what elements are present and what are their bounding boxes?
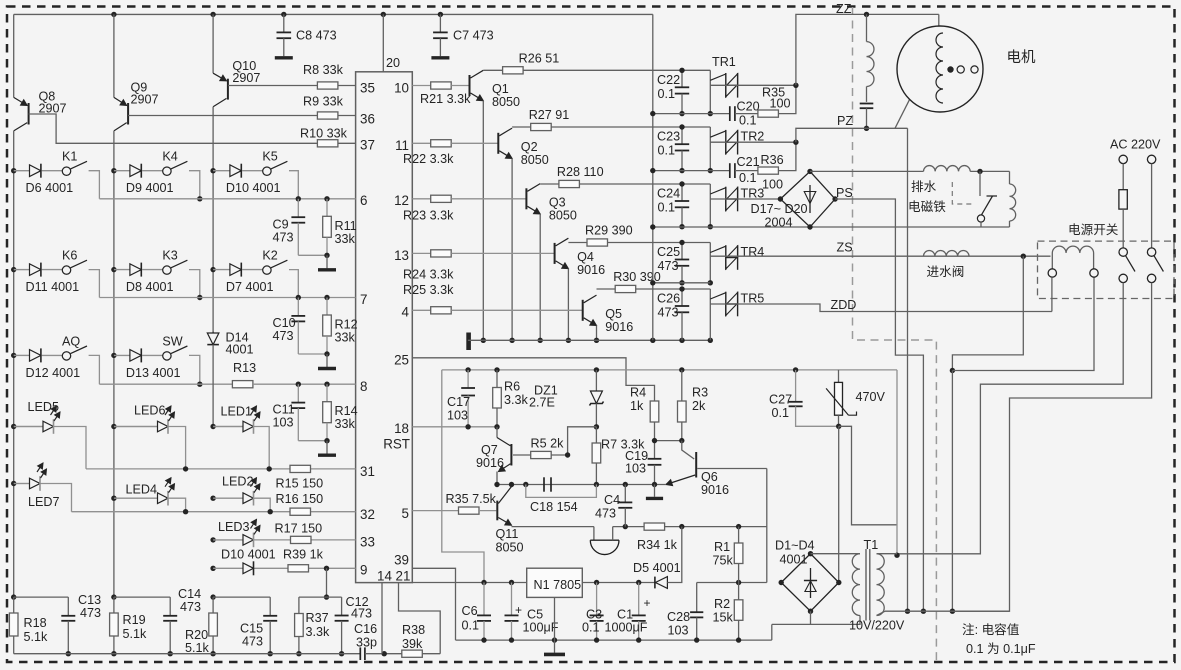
junction top bus / Q10 rail bbox=[210, 12, 215, 17]
wire solenoid bottom bbox=[1009, 221, 1011, 227]
svg-text:32: 32 bbox=[360, 507, 375, 522]
svg-text:0.1: 0.1 bbox=[582, 621, 600, 635]
resistor R10 bbox=[317, 140, 338, 147]
svg-text:473: 473 bbox=[658, 259, 679, 273]
svg-text:2907: 2907 bbox=[232, 71, 260, 85]
resistor R21 bbox=[431, 82, 452, 89]
svg-text:R18: R18 bbox=[24, 616, 47, 630]
wire TR1 midline bbox=[710, 84, 796, 86]
wire unreg to R1/R2 bbox=[697, 582, 767, 584]
resistor R35b bbox=[459, 507, 480, 514]
svg-text:0.1: 0.1 bbox=[772, 406, 790, 420]
wire pin line R25 bbox=[412, 309, 430, 311]
resistor R19 bbox=[113, 597, 115, 613]
LED2 bbox=[213, 497, 243, 499]
diode D14 4001 bbox=[212, 331, 214, 333]
wire C9/R11 junction bbox=[298, 254, 327, 256]
pressure switch contact bbox=[979, 171, 981, 196]
wire ZS return bbox=[952, 256, 1023, 370]
resistor R30 bbox=[615, 285, 636, 292]
LED5 bbox=[14, 426, 43, 428]
junction R4 bottom bbox=[652, 438, 657, 443]
capacitor C4 bbox=[624, 485, 626, 503]
resistor R3 bbox=[681, 370, 683, 401]
resistor R29 bbox=[587, 239, 608, 246]
wire TR3 MT1 / solenoid return bbox=[653, 226, 1010, 228]
wire D6 cathode to switch K1 bbox=[42, 170, 63, 172]
AC terminal L bbox=[1119, 155, 1127, 163]
svg-text:C16: C16 bbox=[354, 622, 377, 636]
wire R22 to Q2 base bbox=[451, 142, 498, 144]
svg-text:LED5: LED5 bbox=[28, 400, 60, 414]
svg-text:R19: R19 bbox=[123, 613, 146, 627]
wire TR3 gate lead bbox=[710, 188, 726, 194]
junction bus/railA bbox=[650, 338, 655, 343]
power switch dashed box bbox=[1038, 241, 1175, 298]
junction rail/D12 bbox=[11, 353, 16, 358]
wire solenoid to corner bbox=[970, 170, 1009, 172]
junction top bus / C8 bbox=[281, 12, 286, 17]
wire Q5 emitter column bbox=[596, 326, 598, 341]
svg-text:C5: C5 bbox=[527, 608, 543, 622]
junction gnd/R2 bbox=[736, 637, 741, 642]
switch pole 1 bottom contact bbox=[1119, 274, 1127, 282]
wire fuse to switch bbox=[1122, 209, 1124, 248]
wire D10 cathode to switch K5 bbox=[242, 170, 263, 172]
svg-text:AQ: AQ bbox=[62, 334, 80, 348]
wire rail column 1 lower bbox=[13, 131, 15, 597]
svg-text:8050: 8050 bbox=[496, 541, 524, 555]
wire R34 to D5/R1 node bbox=[665, 526, 767, 528]
wire pin 9 net bbox=[255, 567, 356, 569]
svg-text:R11: R11 bbox=[335, 219, 357, 233]
wire K1 output step bbox=[89, 171, 100, 199]
capacitor C18 (series) bbox=[543, 477, 545, 491]
transistor Q4 9016 bbox=[554, 243, 556, 264]
capacitor C26 bbox=[681, 289, 683, 306]
capacitor C24 bbox=[681, 184, 683, 201]
wire R36 to TR2 MT2 node bbox=[778, 142, 796, 170]
junction step K4 bbox=[197, 196, 202, 201]
svg-text:C26: C26 bbox=[657, 292, 680, 306]
svg-text:0.1: 0.1 bbox=[658, 87, 676, 101]
capacitor C5 100uF bbox=[511, 583, 513, 616]
svg-text:103: 103 bbox=[447, 409, 468, 423]
resistor R5 bbox=[531, 451, 552, 458]
capacitor C9 bbox=[297, 199, 299, 217]
svg-text:R10 33k: R10 33k bbox=[300, 127, 348, 141]
svg-text:R2: R2 bbox=[714, 597, 730, 611]
wire TR4 gate lead bbox=[710, 246, 726, 252]
transistor Q7 9016 bbox=[496, 427, 498, 438]
wire Q2 emitter column bbox=[511, 159, 513, 341]
capacitor C16 (series) bbox=[359, 647, 361, 660]
svg-text:电磁铁: 电磁铁 bbox=[908, 200, 946, 214]
junction pin6/C9 bbox=[296, 196, 301, 201]
capacitor C13 bbox=[67, 597, 69, 616]
svg-text:D10 4001: D10 4001 bbox=[226, 181, 281, 195]
svg-text:39: 39 bbox=[394, 553, 409, 568]
wire motor stator top bbox=[938, 14, 940, 26]
triac TR5 bbox=[725, 292, 727, 317]
capacitor C1 1000uF bbox=[638, 583, 640, 616]
junction top bus / Q9 rail bbox=[111, 12, 116, 17]
junction TR4 gate drop bottom bbox=[708, 280, 713, 285]
switch K3 bbox=[163, 266, 171, 274]
svg-text:0.1: 0.1 bbox=[739, 114, 757, 128]
wire R21 to Q1 base bbox=[451, 85, 469, 87]
svg-text:C10: C10 bbox=[273, 316, 296, 330]
wire AC common rail bbox=[652, 14, 654, 340]
junction C22 bottom bbox=[679, 111, 684, 116]
motor terminal 1 bbox=[957, 66, 964, 73]
junction bus/TR5 bbox=[708, 338, 713, 343]
junction gnd/7805 tab bbox=[552, 637, 557, 642]
capacitor C7 bbox=[439, 14, 441, 32]
svg-text:C28: C28 bbox=[667, 610, 690, 624]
wire LED5 step bbox=[55, 427, 87, 469]
transistor Q11 8050 bbox=[496, 501, 498, 521]
svg-text:15k: 15k bbox=[713, 611, 734, 625]
wire pin 6 net bbox=[99, 198, 355, 200]
wire pin 18 RST net bbox=[412, 426, 497, 428]
wire ZZ net bbox=[796, 14, 939, 85]
board partition dashed line bbox=[853, 7, 937, 661]
junction emitter bus Q3 bbox=[538, 338, 543, 343]
diode D12 4001 bbox=[14, 354, 30, 356]
svg-text:+: + bbox=[644, 596, 651, 610]
wire R20/C15 top link bbox=[213, 596, 270, 598]
wire pin 21 jog bbox=[399, 583, 441, 654]
svg-text:4001: 4001 bbox=[226, 343, 254, 357]
wire K6 output step bbox=[89, 270, 100, 298]
switch pole 2 top contact bbox=[1147, 248, 1155, 256]
svg-text:AC 220V: AC 220V bbox=[1110, 138, 1161, 152]
resistor R11 bbox=[326, 199, 328, 217]
LED6 bbox=[114, 426, 158, 428]
svg-text:35: 35 bbox=[360, 81, 375, 96]
wire Q2 collector net bbox=[551, 126, 710, 128]
svg-text:C1: C1 bbox=[617, 608, 633, 622]
wire Q9 base to R9 bbox=[128, 115, 317, 117]
svg-text:100μF: 100μF bbox=[523, 621, 559, 635]
zener DZ1 2.7E bbox=[595, 370, 597, 391]
junction bridge2 top bbox=[808, 551, 813, 556]
svg-text:C7 473: C7 473 bbox=[453, 29, 494, 43]
svg-text:R15 150: R15 150 bbox=[276, 477, 324, 491]
resistor R8 bbox=[317, 82, 338, 89]
wire bus C16 to pin14 bbox=[365, 653, 402, 655]
svg-text:C13: C13 bbox=[78, 593, 101, 607]
svg-text:K4: K4 bbox=[162, 150, 177, 164]
diode D6 4001 bbox=[14, 170, 30, 172]
resistor R2 bbox=[738, 583, 740, 600]
motor main winding bbox=[866, 14, 868, 41]
svg-text:C20: C20 bbox=[737, 100, 760, 114]
junction bridge2 bottom bbox=[808, 609, 813, 614]
svg-text:K5: K5 bbox=[262, 150, 277, 164]
wire TR3 midline bbox=[710, 198, 780, 200]
wire PZ net bbox=[796, 128, 908, 142]
capacitor C14 bbox=[169, 597, 171, 616]
junction ZS return bbox=[1021, 254, 1026, 259]
resistor R6 bbox=[496, 370, 498, 388]
wire emitter common bus bbox=[468, 339, 710, 341]
wire TR5 gate lead bbox=[710, 293, 726, 299]
wire R25 to Q5 base bbox=[451, 309, 583, 311]
junction pin31 LED6 bbox=[183, 466, 188, 471]
coil inlet valve bbox=[924, 251, 970, 257]
resistor R34 bbox=[644, 523, 665, 530]
junction top bus / pin20 bbox=[381, 12, 386, 17]
resistor R13 bbox=[232, 381, 253, 388]
svg-text:Q11: Q11 bbox=[496, 527, 519, 541]
junction emitter bus Q1 bbox=[481, 338, 486, 343]
wire D13 cathode to switch SW bbox=[142, 354, 163, 356]
svg-text:电机: 电机 bbox=[1007, 49, 1036, 66]
svg-text:R8 33k: R8 33k bbox=[303, 63, 344, 77]
wire +V top bus bbox=[14, 13, 653, 15]
junction pin32 LED2 bbox=[268, 509, 273, 514]
junction gnd/C1 bbox=[636, 637, 641, 642]
svg-text:R3: R3 bbox=[692, 386, 708, 400]
svg-text:D6 4001: D6 4001 bbox=[26, 181, 74, 195]
svg-text:LED3: LED3 bbox=[218, 520, 250, 534]
diode D5 4001 bbox=[655, 577, 667, 589]
junction TR1 MT2/ZZ bbox=[793, 83, 798, 88]
diode D9 4001 bbox=[114, 170, 130, 172]
varistor RV 470V bbox=[838, 370, 840, 383]
svg-text:C3: C3 bbox=[586, 608, 602, 622]
junction joint/T1 bottom bbox=[950, 609, 955, 614]
svg-text:Q4: Q4 bbox=[577, 250, 594, 264]
junction bias/C18 bbox=[523, 482, 528, 487]
wire PZ return to T1 bbox=[907, 128, 909, 611]
junction bridge left bbox=[778, 196, 783, 201]
svg-text:PS: PS bbox=[836, 186, 853, 200]
wire bias common line bbox=[497, 484, 666, 486]
junction rail/D11 bbox=[11, 267, 16, 272]
svg-text:103: 103 bbox=[625, 462, 646, 476]
svg-text:8: 8 bbox=[360, 379, 367, 394]
wire D9 cathode to switch K4 bbox=[142, 170, 163, 172]
svg-text:C15: C15 bbox=[240, 622, 263, 636]
resistor R26 bbox=[503, 67, 523, 74]
svg-text:LED2: LED2 bbox=[222, 475, 254, 489]
svg-text:C24: C24 bbox=[657, 187, 680, 201]
LED7 bbox=[14, 483, 30, 485]
svg-text:0.1: 0.1 bbox=[658, 144, 676, 158]
svg-text:R9 33k: R9 33k bbox=[303, 95, 344, 109]
junction bias/R7 bbox=[594, 482, 599, 487]
svg-text:13: 13 bbox=[394, 248, 409, 263]
svg-text:R4: R4 bbox=[630, 386, 646, 400]
wire Q10 base to R8 bbox=[228, 85, 318, 87]
capacitor C22 bbox=[681, 70, 683, 87]
svg-text:C9: C9 bbox=[273, 217, 289, 231]
transistor Q5 9016 bbox=[582, 300, 584, 321]
wire pin line R23 bbox=[412, 198, 430, 200]
junction bias/Q11c bbox=[509, 482, 514, 487]
wire 7805 tab bbox=[554, 597, 556, 640]
svg-text:R29 390: R29 390 bbox=[585, 224, 633, 238]
svg-text:R37: R37 bbox=[306, 611, 329, 625]
wire T1 bottom line bbox=[885, 610, 1010, 612]
resistor R4 bbox=[650, 401, 659, 422]
wire pin 25 feed bbox=[412, 358, 654, 401]
svg-text:D8 4001: D8 4001 bbox=[126, 280, 174, 294]
svg-text:100: 100 bbox=[770, 97, 791, 111]
switch AQ bbox=[62, 352, 70, 360]
wire Q5 collector bbox=[597, 288, 616, 290]
junction gnd/C6 bbox=[481, 637, 486, 642]
junction varistor/C27 bbox=[836, 424, 841, 429]
svg-text:C8 473: C8 473 bbox=[296, 29, 337, 43]
junction bus/R37 bbox=[296, 651, 301, 656]
svg-text:R17 150: R17 150 bbox=[275, 522, 323, 536]
wire rail column 3 lower bbox=[212, 107, 214, 332]
wire Q1 collector net bbox=[523, 69, 710, 71]
svg-text:C4: C4 bbox=[604, 493, 620, 507]
svg-text:C23: C23 bbox=[657, 130, 680, 144]
triac TR1 bbox=[725, 73, 727, 98]
AC terminal N bbox=[1147, 155, 1155, 163]
svg-text:4001: 4001 bbox=[780, 553, 808, 567]
junction bus/C15 bbox=[268, 651, 273, 656]
wire Q8 base to R10 bbox=[29, 114, 318, 143]
resistor R18 bbox=[13, 597, 15, 613]
wire D7 cathode to switch K2 bbox=[242, 269, 263, 271]
junction rail1/LED5 bbox=[11, 424, 16, 429]
transformer T1 primary bbox=[877, 554, 885, 616]
svg-text:R34 1k: R34 1k bbox=[637, 538, 678, 552]
svg-text:473: 473 bbox=[595, 507, 616, 521]
svg-text:2.7E: 2.7E bbox=[529, 396, 555, 410]
svg-text:K3: K3 bbox=[162, 249, 177, 263]
junction rail/D13 bbox=[111, 353, 116, 358]
junction D5 riser bbox=[679, 524, 684, 529]
svg-text:R25 3.3k: R25 3.3k bbox=[403, 283, 454, 297]
svg-text:473: 473 bbox=[242, 635, 263, 649]
junction PZ return/T1 bottom bbox=[905, 609, 910, 614]
svg-text:R36: R36 bbox=[761, 153, 784, 167]
svg-text:R16 150: R16 150 bbox=[276, 492, 324, 506]
wire sec return to gnd rail bbox=[771, 624, 773, 640]
wire R35 to TR1 MT2 node bbox=[778, 85, 796, 113]
wire bottom bus left bbox=[14, 653, 361, 655]
junction C3 top bbox=[594, 580, 599, 585]
junction PZ / run cap bbox=[864, 126, 869, 131]
svg-text:3.3k: 3.3k bbox=[306, 625, 331, 639]
wire TR2 MT1 net bbox=[653, 170, 730, 172]
svg-text:8050: 8050 bbox=[492, 95, 520, 109]
capacitor C28 bbox=[696, 583, 698, 613]
wire AQ output step bbox=[89, 355, 100, 384]
svg-text:LED1: LED1 bbox=[221, 405, 253, 419]
wire R24 to Q4 base bbox=[451, 252, 554, 254]
svg-text:+: + bbox=[515, 603, 522, 617]
wire TR2 gate drop bbox=[709, 127, 711, 171]
junction TR1 gate drop bottom bbox=[708, 111, 713, 116]
svg-text:33k: 33k bbox=[335, 417, 356, 431]
resistor R9 bbox=[317, 112, 338, 119]
junction rail/D8 bbox=[111, 267, 116, 272]
junction railA row4 bbox=[650, 280, 655, 285]
diode D10 4001 bbox=[213, 170, 230, 172]
junction rail3/D10b bbox=[210, 566, 215, 571]
svg-text:470V: 470V bbox=[856, 390, 886, 404]
svg-text:473: 473 bbox=[273, 230, 294, 244]
svg-text:473: 473 bbox=[658, 306, 679, 320]
junction rail/D6 bbox=[11, 168, 16, 173]
svg-text:2004: 2004 bbox=[765, 216, 793, 230]
svg-text:排水: 排水 bbox=[911, 180, 937, 194]
junction rail2/LED4 bbox=[111, 496, 116, 501]
switch pole 1 blade bbox=[1126, 256, 1136, 272]
svg-text:R22 3.3k: R22 3.3k bbox=[403, 152, 454, 166]
junction rail/DZ1 bbox=[594, 367, 599, 372]
svg-text:LED7: LED7 bbox=[28, 495, 60, 509]
svg-text:TR1: TR1 bbox=[712, 55, 736, 69]
wire AC N to switch bbox=[1151, 164, 1153, 248]
resistor R24 bbox=[431, 250, 452, 257]
wire Q4 collector bbox=[568, 242, 587, 244]
svg-text:LED6: LED6 bbox=[134, 404, 166, 418]
junction bridge bottom bbox=[807, 224, 812, 229]
capacitor C20 (snubber) bbox=[729, 106, 731, 121]
junction bus/R19 bbox=[111, 651, 116, 656]
wire pin 33 net bbox=[255, 539, 356, 541]
junction emitter bus Q2 bbox=[509, 338, 514, 343]
C18 frame loop bbox=[526, 485, 597, 498]
wire C10/R12 junction bbox=[298, 353, 327, 355]
junction gnd/C28 bbox=[694, 637, 699, 642]
svg-text:9: 9 bbox=[360, 563, 367, 578]
svg-text:2k: 2k bbox=[692, 399, 706, 413]
junction pin8/R14 bbox=[324, 382, 329, 387]
switch pole 1 top contact bbox=[1119, 248, 1127, 256]
svg-text:R20: R20 bbox=[185, 628, 208, 642]
svg-text:R26 51: R26 51 bbox=[519, 51, 560, 65]
capacitor C12 bbox=[341, 597, 343, 615]
wire TR1 MT1 net bbox=[653, 113, 730, 115]
junction R3 bottom bbox=[679, 438, 684, 443]
svg-text:K6: K6 bbox=[62, 249, 77, 263]
triac TR2 bbox=[725, 130, 727, 155]
triac TR3 bbox=[725, 187, 727, 212]
svg-text:N1 7805: N1 7805 bbox=[534, 578, 582, 592]
wire R37/C12 top link bbox=[299, 596, 342, 598]
svg-text:473: 473 bbox=[80, 606, 101, 620]
svg-text:C18 154: C18 154 bbox=[530, 500, 578, 514]
junction bus/C26 bbox=[679, 338, 684, 343]
switch pole 2 blade bbox=[1154, 256, 1164, 272]
svg-text:R24 3.3k: R24 3.3k bbox=[403, 268, 454, 282]
svg-text:10: 10 bbox=[394, 81, 409, 96]
junction bridge top bbox=[807, 169, 812, 174]
capacitor C11 bbox=[297, 384, 299, 402]
junction bus/C12 bbox=[339, 651, 344, 656]
svg-text:33k: 33k bbox=[335, 232, 356, 246]
svg-text:R14: R14 bbox=[335, 404, 358, 418]
svg-text:RST: RST bbox=[383, 437, 410, 452]
svg-text:103: 103 bbox=[273, 416, 294, 430]
junction bridge2 left bbox=[779, 580, 784, 585]
junction pin9/R37C12 bbox=[324, 566, 329, 571]
resistor R22 bbox=[431, 140, 452, 147]
svg-text:电源开关: 电源开关 bbox=[1068, 223, 1119, 237]
junction joint return bbox=[950, 368, 955, 373]
